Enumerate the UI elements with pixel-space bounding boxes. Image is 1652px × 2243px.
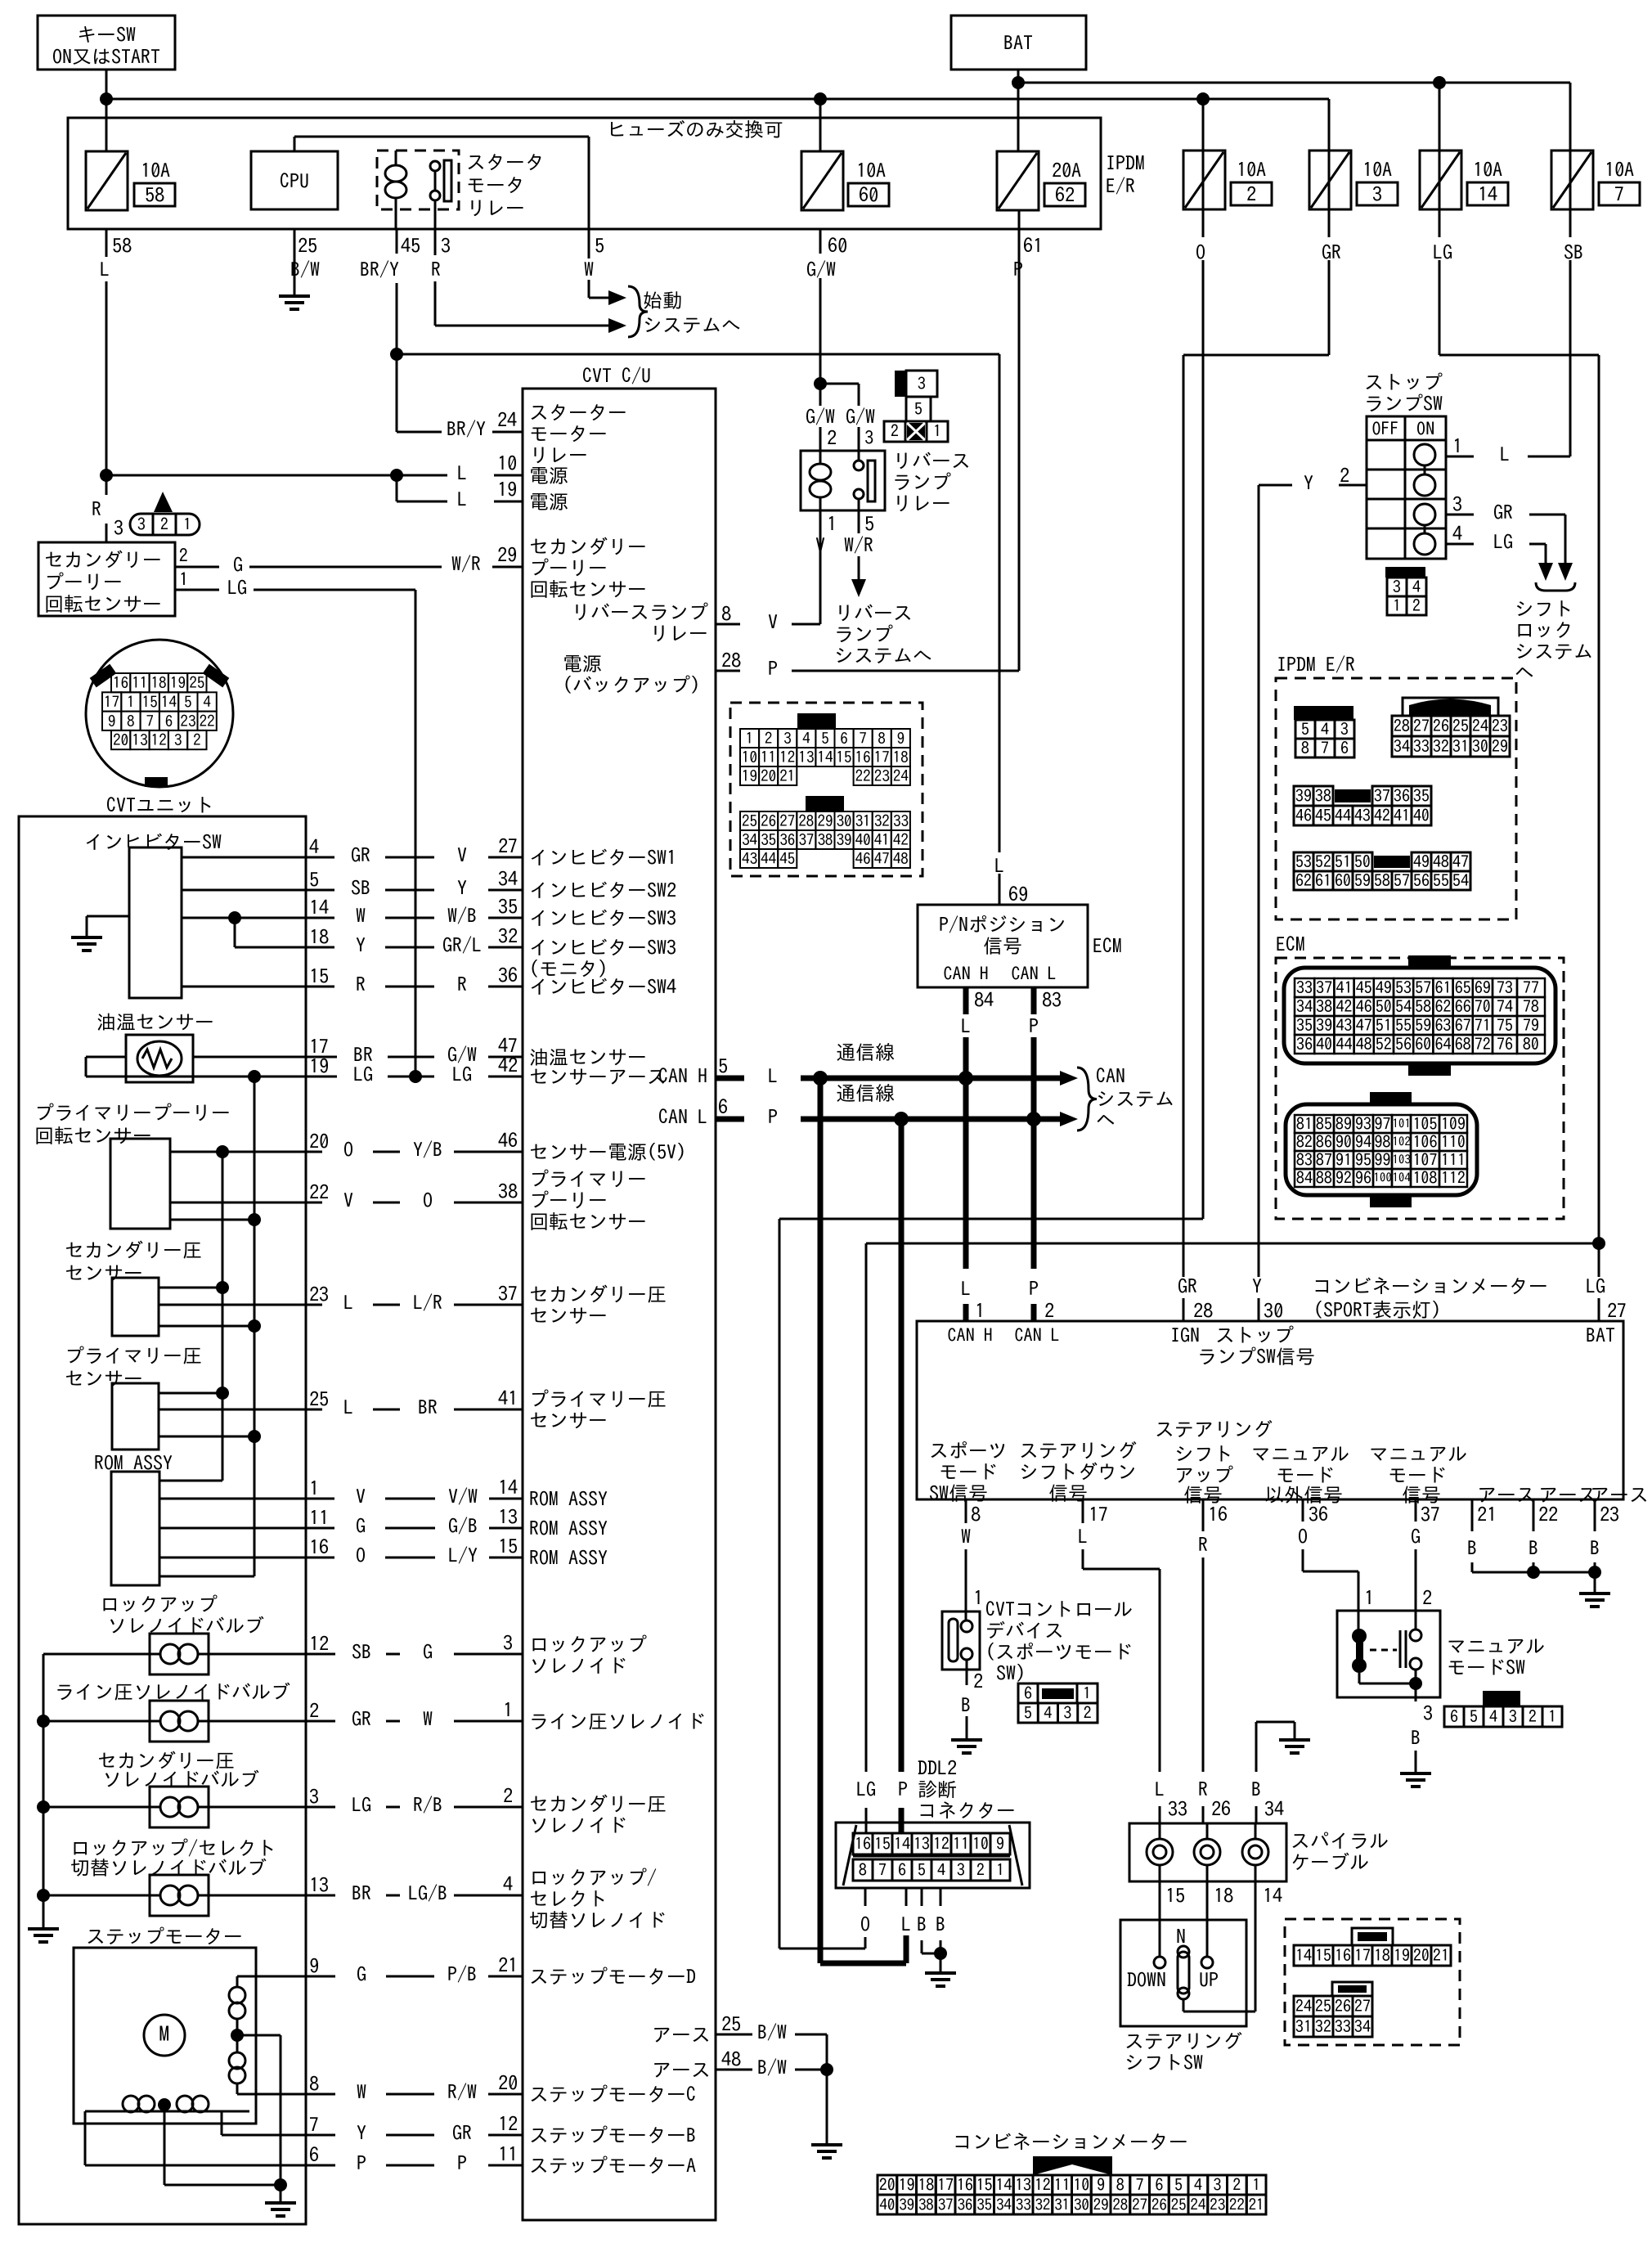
- svg-text:99: 99: [1375, 1152, 1391, 1168]
- B wire ground to spiral 34: [1279, 1738, 1310, 1742]
- svg-text:34: 34: [742, 833, 758, 848]
- wire BR/Y pin45 down: [396, 229, 398, 254]
- wire SB fuse7 down: [1569, 151, 1572, 237]
- svg-text:43: 43: [1336, 1018, 1353, 1034]
- svg-text:7: 7: [878, 1862, 887, 1878]
- node line pressure: [37, 1715, 50, 1728]
- svg-text:109: 109: [1441, 1116, 1466, 1132]
- svg-text:アース: アース: [1477, 1485, 1536, 1504]
- svg-text:26: 26: [1335, 1998, 1351, 2015]
- svg-text:4: 4: [1412, 579, 1421, 596]
- sensor 5V bus: [222, 1152, 224, 1481]
- solenoid ground bus: [43, 1654, 45, 1929]
- svg-text:25: 25: [1452, 718, 1469, 735]
- svg-text:3: 3: [1372, 184, 1382, 204]
- svg-text:P/B: P/B: [447, 1964, 477, 1984]
- svg-text:アップ: アップ: [1174, 1465, 1233, 1485]
- svg-text:5: 5: [1024, 1705, 1032, 1721]
- svg-text:CAN L: CAN L: [658, 1107, 707, 1126]
- svg-text:1: 1: [503, 1700, 513, 1719]
- svg-text:B: B: [1529, 1538, 1538, 1558]
- svg-text:62: 62: [1055, 185, 1075, 205]
- fuse 58 10A: [86, 151, 128, 210]
- svg-text:6: 6: [840, 731, 848, 747]
- svg-text:39: 39: [1295, 788, 1312, 804]
- svg-text:W: W: [423, 1709, 433, 1728]
- svg-text:8: 8: [1116, 2177, 1125, 2193]
- svg-text:31: 31: [855, 814, 871, 829]
- svg-text:セレクト: セレクト: [529, 1889, 608, 1908]
- svg-text:47: 47: [1356, 1018, 1372, 1034]
- svg-text:21: 21: [1477, 1504, 1497, 1524]
- svg-text:10: 10: [742, 750, 757, 766]
- CPU box: [251, 151, 338, 209]
- svg-text:ステアリング: ステアリング: [1019, 1441, 1137, 1460]
- svg-text:33: 33: [1168, 1799, 1187, 1818]
- svg-text:38: 38: [1315, 788, 1331, 804]
- svg-text:34: 34: [996, 2197, 1012, 2213]
- svg-text:CVTコントロール: CVTコントロール: [985, 1599, 1133, 1619]
- node earth 23: [1588, 1566, 1601, 1579]
- svg-text:GR: GR: [352, 1709, 371, 1728]
- svg-text:信号: 信号: [983, 936, 1022, 955]
- svg-text:21: 21: [779, 769, 795, 784]
- svg-text:2: 2: [891, 423, 899, 439]
- wire G/W from fuse60 down: [819, 229, 822, 254]
- node LG BAT branch: [1592, 1237, 1605, 1250]
- svg-text:P: P: [1029, 1279, 1039, 1298]
- svg-text:37: 37: [1374, 788, 1390, 804]
- svg-text:3: 3: [918, 375, 926, 392]
- svg-text:84: 84: [1296, 1170, 1313, 1186]
- row primary pressure: [159, 1409, 306, 1411]
- svg-text:32: 32: [1315, 2019, 1331, 2035]
- svg-text:6: 6: [1340, 740, 1349, 757]
- svg-text:31: 31: [1452, 739, 1469, 755]
- node earth join: [820, 2063, 833, 2076]
- svg-text:43: 43: [1354, 807, 1371, 824]
- svg-text:GR: GR: [452, 2123, 472, 2142]
- svg-text:3: 3: [137, 516, 146, 533]
- reverse relay contact: [854, 461, 864, 470]
- svg-text:42: 42: [893, 833, 909, 848]
- svg-text:G: G: [357, 1964, 366, 1984]
- svg-text:B/W: B/W: [757, 2057, 787, 2077]
- svg-text:GR: GR: [1493, 502, 1513, 522]
- svg-text:20: 20: [879, 2177, 896, 2193]
- svg-text:BR: BR: [418, 1397, 438, 1417]
- svg-text:29: 29: [1492, 739, 1508, 755]
- svg-text:4: 4: [1044, 1705, 1052, 1721]
- svg-text:R: R: [1198, 1535, 1208, 1554]
- svg-text:18: 18: [918, 2177, 934, 2193]
- svg-text:6: 6: [309, 2145, 319, 2164]
- wire L to CVT pins 10/19: [106, 474, 397, 477]
- svg-text:SB: SB: [352, 1642, 371, 1661]
- svg-text:14: 14: [995, 2177, 1012, 2193]
- svg-text:LG: LG: [452, 1064, 472, 1084]
- svg-text:60: 60: [859, 185, 878, 205]
- row lockup select solenoid: [43, 1895, 150, 1897]
- svg-text:27: 27: [1607, 1301, 1627, 1320]
- svg-text:電源: 電源: [529, 492, 568, 511]
- svg-text:68: 68: [1455, 1036, 1471, 1053]
- svg-text:84: 84: [974, 990, 994, 1009]
- svg-text:38: 38: [498, 1181, 518, 1201]
- svg-text:5: 5: [309, 870, 319, 889]
- svg-text:V: V: [815, 535, 825, 555]
- svg-text:V: V: [768, 612, 778, 632]
- svg-text:3: 3: [114, 518, 123, 537]
- svg-text:93: 93: [1355, 1116, 1371, 1132]
- svg-text:R: R: [356, 974, 366, 994]
- svg-text:システム: システム: [1096, 1089, 1174, 1108]
- svg-text:センサーアース: センサーアース: [529, 1067, 667, 1086]
- svg-text:IGN: IGN: [1170, 1325, 1200, 1345]
- svg-text:37: 37: [1421, 1504, 1440, 1524]
- svg-text:111: 111: [1441, 1152, 1466, 1168]
- svg-text:107: 107: [1413, 1152, 1438, 1168]
- svg-text:8: 8: [971, 1504, 981, 1524]
- row ROM V: [159, 1498, 306, 1500]
- svg-text:Y: Y: [1304, 473, 1313, 492]
- svg-text:59: 59: [1354, 873, 1371, 889]
- svg-text:マニュアル: マニュアル: [1251, 1444, 1349, 1463]
- svg-text:96: 96: [1355, 1170, 1371, 1186]
- svg-text:BR/Y: BR/Y: [360, 259, 399, 279]
- inhibitor wires: [182, 856, 306, 859]
- svg-text:25: 25: [298, 236, 317, 255]
- svg-text:5: 5: [918, 1862, 926, 1878]
- svg-text:CAN: CAN: [1096, 1066, 1125, 1086]
- svg-text:81: 81: [1296, 1116, 1313, 1132]
- row primary pulley: [170, 1202, 306, 1204]
- svg-text:46: 46: [855, 852, 871, 867]
- node CAN L taps: [894, 1112, 909, 1126]
- node lockup select: [37, 1889, 50, 1902]
- svg-text:10: 10: [497, 453, 517, 473]
- LG branch to DDL2 pin16: [866, 1243, 1599, 1245]
- svg-text:L: L: [343, 1292, 353, 1312]
- svg-text:49: 49: [1376, 980, 1392, 996]
- svg-text:4: 4: [1452, 524, 1462, 543]
- svg-text:18: 18: [309, 927, 329, 946]
- svg-text:55: 55: [1395, 1018, 1412, 1034]
- svg-text:58: 58: [112, 236, 132, 255]
- svg-text:セカンダリー圧: セカンダリー圧: [529, 1794, 667, 1814]
- svg-text:GR: GR: [1178, 1276, 1197, 1296]
- svg-text:14: 14: [817, 750, 833, 766]
- svg-text:21: 21: [498, 1955, 518, 1975]
- svg-text:6: 6: [898, 1862, 906, 1878]
- svg-text:26: 26: [1211, 1799, 1231, 1818]
- svg-text:16: 16: [855, 750, 871, 766]
- svg-text:2: 2: [1412, 598, 1421, 614]
- svg-text:112: 112: [1441, 1170, 1466, 1186]
- svg-text:19: 19: [742, 769, 757, 784]
- svg-text:61: 61: [1023, 236, 1043, 255]
- svg-text:ストップ: ストップ: [1364, 372, 1443, 392]
- svg-text:18: 18: [151, 676, 167, 691]
- svg-text:77: 77: [1523, 980, 1539, 996]
- svg-text:104: 104: [1392, 1171, 1411, 1184]
- svg-text:OFF: OFF: [1372, 420, 1399, 438]
- svg-text:27: 27: [779, 814, 795, 829]
- svg-text:P: P: [768, 659, 778, 678]
- svg-text:ROM ASSY: ROM ASSY: [529, 1489, 608, 1508]
- svg-text:40: 40: [1316, 1036, 1332, 1053]
- svg-text:14: 14: [161, 694, 177, 710]
- CVT 48pin connector grid2 tab: [806, 796, 844, 811]
- svg-text:キーSW: キーSW: [77, 25, 136, 44]
- svg-text:19: 19: [309, 1056, 329, 1076]
- svg-text:始動: 始動: [643, 290, 682, 310]
- svg-text:リレー: リレー: [892, 493, 951, 513]
- svg-text:10A: 10A: [1473, 160, 1502, 179]
- svg-text:15: 15: [498, 1536, 518, 1556]
- svg-text:32: 32: [874, 814, 890, 829]
- svg-text:8: 8: [721, 604, 731, 623]
- svg-text:2: 2: [1232, 2177, 1241, 2193]
- svg-text:モータ: モータ: [466, 175, 525, 195]
- svg-text:モード: モード: [1276, 1465, 1335, 1485]
- svg-text:34: 34: [498, 869, 518, 888]
- node step gnd: [274, 2178, 287, 2191]
- svg-text:95: 95: [1355, 1152, 1371, 1168]
- svg-text:3: 3: [309, 1787, 319, 1806]
- svg-text:32: 32: [498, 926, 518, 946]
- svg-text:36: 36: [957, 2197, 972, 2213]
- svg-text:9: 9: [309, 1956, 319, 1976]
- svg-text:LG: LG: [856, 1779, 876, 1799]
- svg-text:6: 6: [1024, 1685, 1032, 1701]
- svg-text:36: 36: [1309, 1504, 1328, 1524]
- svg-text:ROM ASSY: ROM ASSY: [529, 1548, 608, 1567]
- svg-text:BAT: BAT: [1586, 1325, 1615, 1345]
- svg-text:15: 15: [309, 966, 329, 986]
- svg-text:4: 4: [1489, 1709, 1497, 1725]
- svg-text:LG: LG: [1493, 532, 1513, 551]
- svg-text:50: 50: [1354, 854, 1371, 870]
- svg-text:B: B: [936, 1914, 945, 1934]
- svg-text:ストップ: ストップ: [1215, 1325, 1294, 1345]
- svg-text:38: 38: [817, 833, 833, 848]
- svg-text:7: 7: [146, 713, 155, 729]
- CAN system label: [1077, 1068, 1097, 1130]
- svg-text:Y/B: Y/B: [413, 1139, 442, 1159]
- svg-text:100: 100: [1373, 1171, 1392, 1184]
- svg-text:47: 47: [874, 852, 890, 867]
- svg-text:2: 2: [1340, 465, 1349, 485]
- svg-text:63: 63: [1435, 1018, 1452, 1034]
- svg-text:モード: モード: [1388, 1465, 1447, 1485]
- svg-text:センサー: センサー: [65, 1263, 143, 1283]
- svg-text:35: 35: [761, 833, 776, 848]
- svg-text:電源: 電源: [529, 465, 568, 485]
- svg-text:33: 33: [893, 814, 909, 829]
- svg-text:50: 50: [1376, 999, 1392, 1015]
- svg-text:G/W: G/W: [846, 407, 875, 426]
- svg-text:28: 28: [798, 814, 814, 829]
- svg-text:Y: Y: [357, 2123, 366, 2142]
- svg-text:1: 1: [179, 570, 188, 588]
- svg-text:3: 3: [783, 731, 792, 747]
- svg-text:6: 6: [1155, 2177, 1163, 2193]
- ECM connector 2: [1370, 1092, 1412, 1104]
- svg-text:17: 17: [937, 2177, 954, 2193]
- svg-text:プライマリープーリー: プライマリープーリー: [34, 1103, 231, 1122]
- svg-text:ソレノイド: ソレノイド: [529, 1656, 627, 1675]
- row step motor A: [84, 2111, 87, 2165]
- CVT C-U 48pin connector dashed box: [730, 703, 923, 876]
- svg-text:1: 1: [1364, 1588, 1374, 1607]
- svg-text:G: G: [1411, 1526, 1421, 1546]
- svg-text:26: 26: [1151, 2197, 1167, 2213]
- svg-text:プライマリー: プライマリー: [529, 1169, 647, 1189]
- svg-text:8: 8: [309, 2074, 319, 2093]
- svg-text:21: 21: [1249, 2197, 1264, 2213]
- svg-text:10A: 10A: [1237, 160, 1266, 179]
- svg-text:18: 18: [1374, 1948, 1390, 1964]
- svg-text:5: 5: [595, 236, 604, 255]
- svg-text:40: 40: [1413, 807, 1430, 824]
- svg-text:13: 13: [798, 750, 814, 766]
- svg-text:30: 30: [1074, 2197, 1089, 2213]
- svg-text:37: 37: [1316, 980, 1332, 996]
- wire P-N position feed line: [397, 353, 999, 356]
- svg-text:12: 12: [1035, 2177, 1051, 2193]
- svg-text:1: 1: [127, 694, 135, 710]
- svg-text:CAN H: CAN H: [658, 1066, 707, 1086]
- svg-text:17: 17: [1354, 1948, 1371, 1964]
- svg-text:ソレノイドバルブ: ソレノイドバルブ: [107, 1616, 264, 1635]
- svg-text:P: P: [357, 2153, 366, 2173]
- svg-text:アース: アース: [652, 2060, 711, 2079]
- svg-text:セカンダリー圧: セカンダリー圧: [529, 1284, 667, 1304]
- svg-text:3: 3: [1214, 2177, 1222, 2193]
- svg-text:GR: GR: [351, 845, 370, 865]
- svg-text:ランプSW信号: ランプSW信号: [1197, 1346, 1315, 1366]
- svg-text:28: 28: [1112, 2197, 1128, 2213]
- inhibitor SW assembly box: [19, 816, 306, 2224]
- svg-text:W: W: [961, 1526, 971, 1546]
- CVT control device pin2 B: [966, 1660, 968, 1670]
- svg-text:IPDM: IPDM: [1106, 153, 1145, 173]
- ECM connector 1: [1408, 955, 1451, 969]
- svg-text:3: 3: [1452, 494, 1462, 514]
- svg-text:1: 1: [1252, 2177, 1260, 2193]
- svg-text:G: G: [423, 1642, 433, 1661]
- svg-text:ステップモーター: ステップモーター: [86, 1926, 243, 1946]
- svg-text:52: 52: [1315, 854, 1331, 870]
- svg-text:94: 94: [1355, 1134, 1371, 1150]
- svg-text:1: 1: [973, 1588, 983, 1607]
- svg-text:4: 4: [937, 1862, 945, 1878]
- svg-text:UP: UP: [1199, 1970, 1219, 1989]
- svg-text:87: 87: [1316, 1152, 1332, 1168]
- svg-text:1: 1: [309, 1478, 319, 1498]
- svg-text:P/Nポジション: P/Nポジション: [939, 915, 1066, 934]
- CAN H communication line: [801, 1076, 1060, 1081]
- svg-text:27: 27: [1132, 2197, 1147, 2213]
- manual SW contact: [1352, 1629, 1367, 1643]
- svg-text:33: 33: [1296, 980, 1313, 996]
- svg-text:シフト: シフト: [1174, 1444, 1233, 1463]
- CVT unit circular connector: [86, 640, 233, 787]
- svg-text:92: 92: [1336, 1170, 1352, 1186]
- svg-text:スパイラル: スパイラル: [1291, 1831, 1389, 1850]
- svg-text:75: 75: [1497, 1018, 1513, 1034]
- svg-text:リレー: リレー: [466, 198, 525, 218]
- svg-text:ステップモーターD: ステップモーターD: [529, 1967, 696, 1986]
- svg-text:診断: 診断: [918, 1779, 957, 1799]
- svg-text:51: 51: [1335, 854, 1351, 870]
- svg-text:9: 9: [108, 713, 116, 729]
- svg-text:R: R: [92, 499, 101, 519]
- svg-text:58: 58: [145, 185, 164, 205]
- svg-text:13: 13: [309, 1875, 329, 1895]
- node fuse14 tap: [1433, 76, 1446, 89]
- IPDM connector C: [1294, 786, 1313, 806]
- svg-text:29: 29: [817, 814, 833, 829]
- svg-text:10: 10: [1073, 2177, 1089, 2193]
- svg-text:ON又はSTART: ON又はSTART: [52, 47, 160, 66]
- N switch capsule: [1178, 1946, 1189, 1958]
- svg-text:36: 36: [1296, 1036, 1313, 1053]
- svg-text:23: 23: [1492, 718, 1508, 735]
- svg-text:3: 3: [864, 429, 873, 447]
- IPDM E/R fuse box: [68, 118, 1101, 229]
- svg-text:プライマリー圧: プライマリー圧: [529, 1389, 667, 1409]
- svg-text:通信線: 通信線: [836, 1083, 895, 1103]
- svg-text:27: 27: [498, 836, 518, 856]
- svg-text:4: 4: [503, 1874, 513, 1894]
- svg-text:8: 8: [1301, 740, 1309, 757]
- node secondary solenoid: [37, 1800, 50, 1814]
- svg-text:32: 32: [1433, 739, 1449, 755]
- svg-text:3: 3: [1340, 721, 1349, 738]
- svg-text:2: 2: [973, 1671, 983, 1691]
- svg-text:98: 98: [1375, 1134, 1391, 1150]
- svg-text:30: 30: [1472, 739, 1488, 755]
- svg-text:E/R: E/R: [1106, 176, 1135, 196]
- svg-text:センサー: センサー: [529, 1306, 608, 1325]
- svg-text:ランプSW: ランプSW: [1364, 393, 1443, 413]
- svg-text:ロックアップ: ロックアップ: [529, 1634, 647, 1654]
- svg-text:G: G: [233, 555, 243, 574]
- svg-text:5: 5: [1174, 2177, 1183, 2193]
- svg-text:36: 36: [1394, 788, 1410, 804]
- svg-text:38: 38: [918, 2197, 934, 2213]
- svg-text:41: 41: [1394, 807, 1410, 824]
- svg-text:リバース: リバース: [834, 603, 913, 623]
- svg-text:7: 7: [309, 2115, 319, 2134]
- svg-text:L: L: [961, 1016, 971, 1036]
- svg-text:B: B: [917, 1914, 927, 1934]
- svg-text:G/W: G/W: [447, 1045, 477, 1064]
- svg-text:89: 89: [1336, 1116, 1352, 1132]
- svg-text:ケーブル: ケーブル: [1291, 1852, 1369, 1872]
- svg-text:76: 76: [1497, 1036, 1513, 1053]
- node G/W branch: [814, 377, 827, 390]
- svg-text:40: 40: [855, 833, 871, 848]
- svg-text:82: 82: [1296, 1134, 1313, 1150]
- wire CPU to relay coil: [294, 137, 296, 151]
- IPDM connector D: [1294, 852, 1313, 871]
- svg-text:4: 4: [1194, 2177, 1202, 2193]
- CVT control device box: [942, 1611, 980, 1670]
- svg-text:44: 44: [1335, 807, 1351, 824]
